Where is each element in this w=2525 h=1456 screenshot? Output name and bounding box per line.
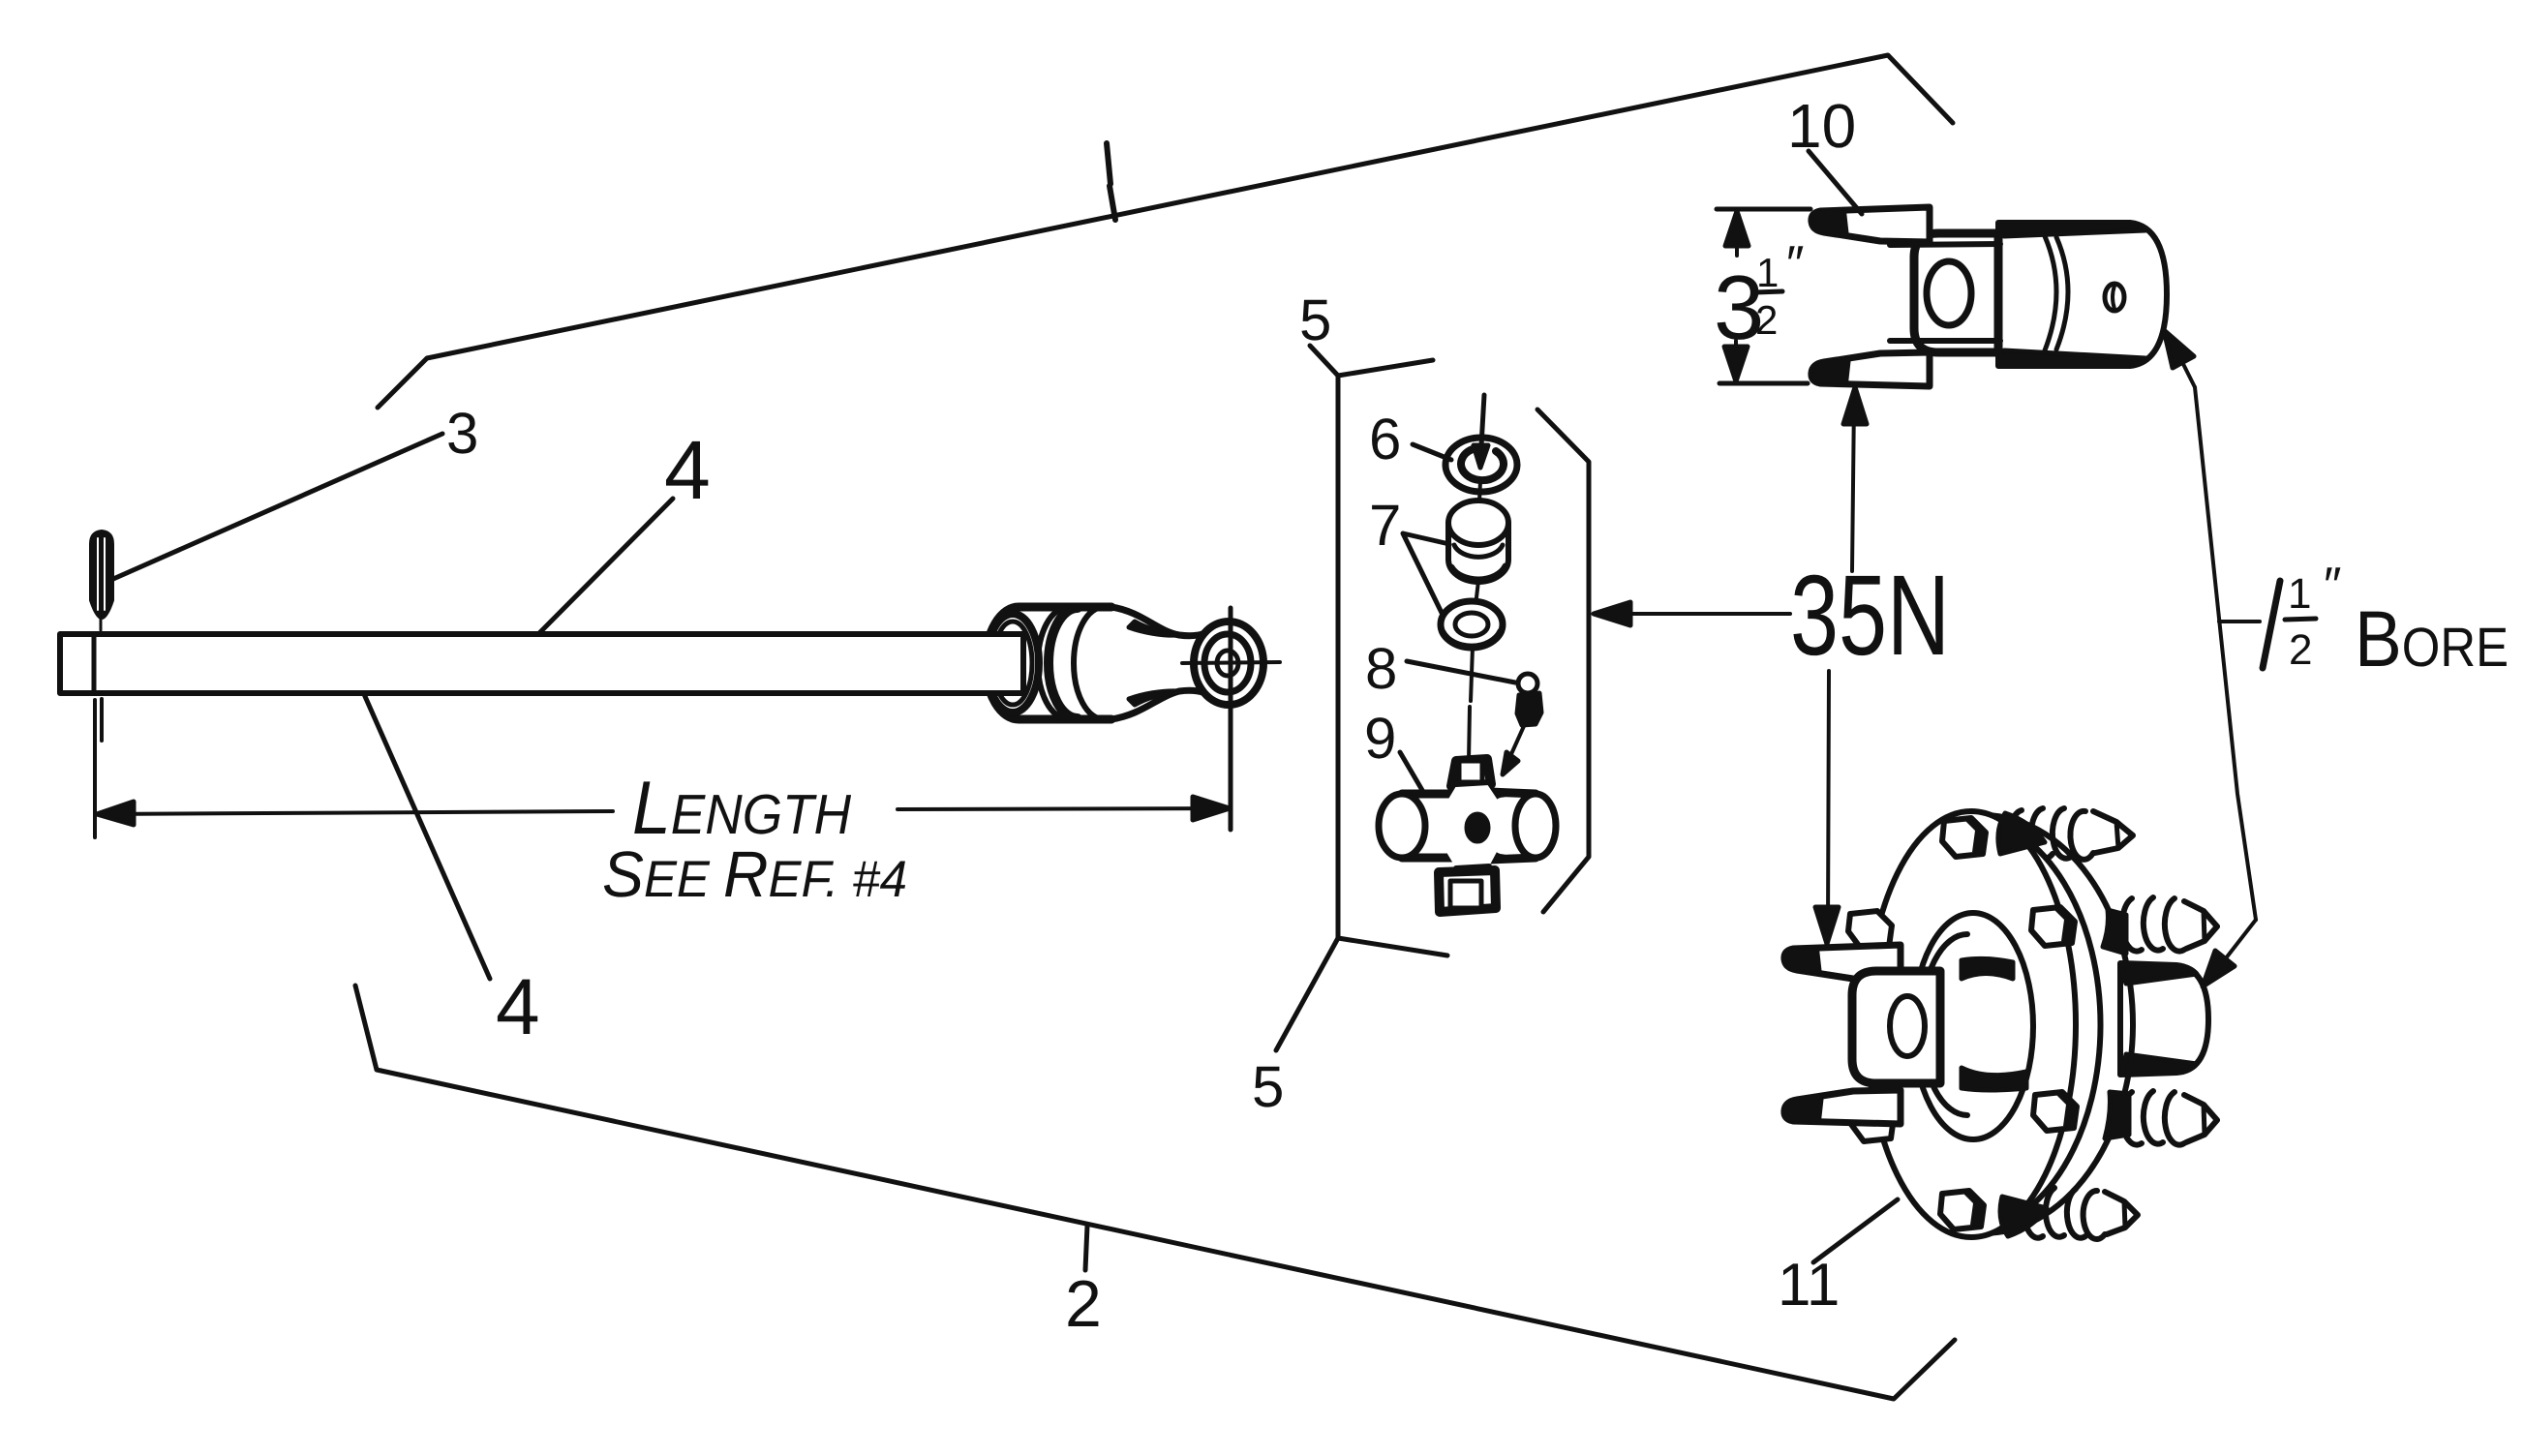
detail plate 5 outline (1338, 360, 1589, 955)
svg-text:″: ″ (1786, 236, 1804, 292)
node label 2 tick (1085, 1226, 1087, 1270)
yoke 10 body (1914, 233, 1998, 352)
svg-text:11: 11 (1778, 1252, 1840, 1319)
flange 11 bore hub cylinder (2120, 963, 2208, 1075)
bearing cup 7 (1448, 500, 1508, 582)
stud bottom (2024, 1188, 2138, 1239)
arrow 35N to detail plate (1594, 602, 1790, 625)
bore leader line (2164, 330, 2260, 986)
svg-text:5: 5 (1252, 1054, 1284, 1119)
svg-text:2: 2 (1065, 1267, 1102, 1341)
svg-text:7: 7 (1369, 493, 1401, 558)
yoke neck to eye (1111, 607, 1218, 719)
wire leader 7 (two branches) (1403, 533, 1449, 617)
wire leader 4 bottom (364, 694, 490, 979)
yoke 10 upper ear (1811, 207, 2000, 245)
wire leader 6 (1413, 444, 1451, 460)
grease fitting 8 (1503, 674, 1541, 774)
seal washer 7 (1441, 601, 1503, 648)
dimension 3-1/2 inch (1717, 209, 1810, 383)
slip collar sleeve behind shaft (986, 607, 1111, 719)
arrow 35N down to flange yoke 11 (1815, 671, 1839, 944)
wire leader 8 (1407, 661, 1515, 682)
flange 11 disc (1867, 811, 2133, 1237)
node label 1 (1107, 143, 1115, 220)
svg-text:″: ″ (2324, 558, 2341, 614)
wire leader 3 (113, 434, 442, 579)
flange yoke 11 body (1852, 971, 1940, 1083)
flange yoke 11 ears (1784, 945, 1901, 1124)
svg-text:5: 5 (1299, 288, 1331, 352)
stud lower right (2122, 1091, 2217, 1145)
svg-text:8: 8 (1365, 636, 1397, 701)
stud upper right (2122, 897, 2217, 952)
svg-text:6: 6 (1369, 407, 1401, 471)
wire leader 4 top (538, 499, 673, 634)
flange 11 hex bolts (1848, 818, 2077, 1229)
svg-text:10: 10 (1787, 91, 1856, 161)
svg-text:9: 9 (1364, 706, 1396, 771)
svg-text:2: 2 (1755, 297, 1778, 343)
svg-text:4: 4 (496, 963, 540, 1051)
flange 11 studs behind rim (2010, 808, 2217, 1239)
yoke 10 lower ear (1811, 341, 2000, 386)
eye ring at shaft yoke end (1182, 622, 1280, 705)
wire leader 5 bottom (1276, 938, 1338, 1050)
wire leader line 2 (355, 986, 1955, 1399)
arrow 35N up to yoke 10 (1843, 387, 1867, 571)
wire leader 9 (1400, 752, 1423, 792)
svg-text:1: 1 (2288, 570, 2311, 618)
svg-text:3: 3 (446, 401, 478, 466)
wire leader 11 (1813, 1199, 1898, 1262)
svg-text:2: 2 (2289, 626, 2312, 674)
yoke 10 hub tube (1998, 223, 2167, 366)
stud top (2010, 808, 2133, 861)
text 3 1/2 inch (1714, 236, 1804, 358)
pin 3 (91, 531, 112, 741)
svg-text:1: 1 (1756, 250, 1779, 295)
svg-text:35N: 35N (1790, 552, 1950, 680)
dimension LENGTH SEE REF #4 (95, 608, 1231, 837)
spider cross 9 (1379, 759, 1556, 912)
wire leader 5 top (1310, 346, 1338, 376)
shaft 4 (60, 634, 1023, 693)
wire leader line 1 (378, 55, 1953, 408)
wire leader 10 (1809, 151, 1862, 214)
text 1-1/2 BORE (2263, 558, 2509, 683)
snap ring 6 (1445, 395, 1517, 492)
centerline dashes (1469, 481, 1480, 761)
